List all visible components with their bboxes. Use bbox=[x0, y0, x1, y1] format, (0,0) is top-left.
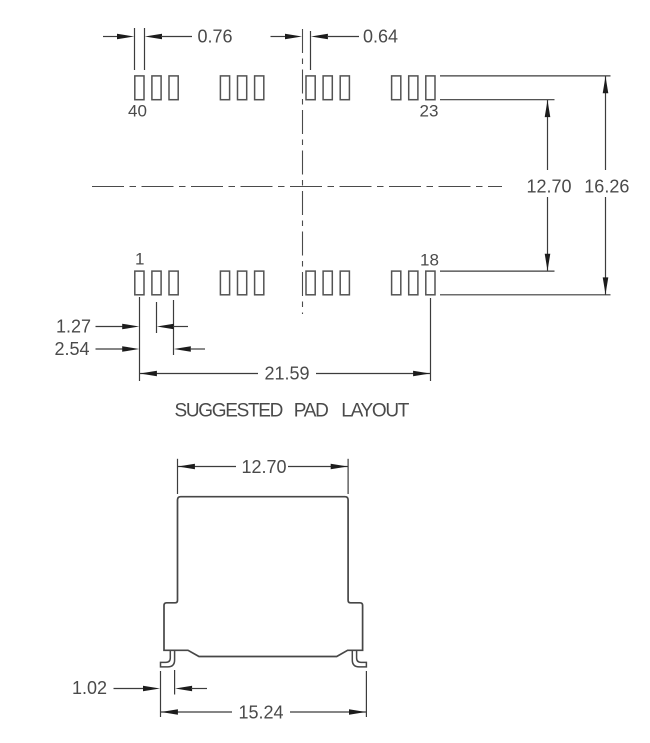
pad 7 bbox=[238, 271, 247, 295]
extension line 12.70 bottom bbox=[440, 270, 555, 272]
dimension 1.02 left tail bbox=[114, 688, 145, 690]
svg-text:40: 40 bbox=[128, 102, 147, 121]
dimension 15.24 right arrowhead bbox=[349, 709, 366, 715]
extension line 16.26 bottom bbox=[440, 294, 611, 296]
pad 8 bbox=[255, 271, 264, 295]
svg-text:0.64: 0.64 bbox=[363, 26, 398, 46]
pad 18 bbox=[426, 271, 435, 295]
dimension 1.02 right tail bbox=[191, 688, 207, 690]
dimension 21.59 line right bbox=[316, 373, 431, 375]
dimension 1.27 right arrowhead bbox=[157, 324, 174, 330]
extension line pad1 center bbox=[139, 297, 141, 381]
pad 17 bbox=[409, 271, 418, 295]
dimension 12.70 left arrowhead (side view) bbox=[178, 464, 195, 470]
svg-text:12.70: 12.70 bbox=[242, 457, 287, 477]
dimension 1.27 left tail bbox=[96, 326, 124, 328]
dimension 1.02 right arrowhead bbox=[175, 686, 192, 692]
dimension 16.26 up arrowhead bbox=[603, 76, 609, 93]
dimension 0.64 left arrow tail bbox=[271, 36, 287, 38]
pad 12 bbox=[323, 271, 332, 295]
dimension 16.26 vertical line upper bbox=[605, 76, 607, 170]
package body outline bbox=[164, 497, 363, 657]
dimension 0.76 right arrow tail bbox=[161, 36, 192, 38]
pad 34 bbox=[238, 76, 247, 100]
svg-text:12.70: 12.70 bbox=[527, 176, 572, 196]
extension line lead inner left bbox=[174, 670, 176, 695]
dimension 0.76 extension line left bbox=[134, 28, 136, 70]
package lead right bbox=[352, 650, 366, 667]
pad 3 bbox=[169, 271, 178, 295]
dimension 21.59 left arrowhead bbox=[140, 371, 157, 377]
pad 39 bbox=[152, 76, 161, 100]
dimension 2.54 right arrowhead bbox=[174, 346, 191, 352]
dimension 1.27 left arrowhead bbox=[122, 324, 139, 330]
pad 35 bbox=[220, 76, 229, 100]
pad 13 bbox=[340, 271, 349, 295]
dimension 2.54 right tail bbox=[190, 348, 205, 350]
dimension 12.70 up arrowhead bbox=[545, 100, 551, 117]
dimension 16.26 vertical line lower bbox=[605, 197, 607, 295]
pad 24 bbox=[409, 76, 418, 100]
svg-text:15.24: 15.24 bbox=[239, 702, 284, 722]
extension line 16.26 top bbox=[440, 75, 611, 77]
pad 2 bbox=[152, 271, 161, 295]
dimension 12.70 down arrowhead bbox=[545, 254, 551, 271]
svg-text:2.54: 2.54 bbox=[55, 339, 90, 359]
dimension 0.76 left arrow tail bbox=[103, 36, 118, 38]
dimension 0.64 right arrowhead bbox=[311, 34, 328, 40]
pad 1 (bottom row) bbox=[135, 271, 144, 295]
package lead left bbox=[161, 650, 175, 667]
dimension 0.64 extension line bbox=[310, 31, 312, 70]
vertical centerline bbox=[302, 29, 304, 314]
dimension 21.59 right arrowhead bbox=[413, 371, 430, 377]
svg-text:23: 23 bbox=[420, 102, 439, 121]
dimension 12.70 vertical line lower bbox=[547, 197, 549, 271]
pad 23 bbox=[426, 76, 435, 100]
svg-text:1: 1 bbox=[135, 250, 144, 269]
extension line lead tip left bbox=[160, 671, 162, 717]
dimension 1.02 left arrowhead bbox=[143, 686, 160, 692]
svg-text:21.59: 21.59 bbox=[265, 364, 310, 384]
dimension 15.24 line left bbox=[161, 711, 233, 713]
pad 38 bbox=[169, 76, 178, 100]
pad 25 bbox=[392, 76, 401, 100]
dimension 0.76 right arrowhead bbox=[145, 34, 162, 40]
svg-text:0.76: 0.76 bbox=[198, 26, 233, 46]
extension line pad3 center bbox=[173, 300, 175, 355]
svg-text:1.02: 1.02 bbox=[72, 678, 107, 698]
pad 28 bbox=[340, 76, 349, 100]
pad 33 bbox=[255, 76, 264, 100]
pad 6 bbox=[220, 271, 229, 295]
dimension 15.24 line right bbox=[290, 711, 366, 713]
dimension 12.70 extension line left (side view) bbox=[177, 459, 179, 494]
pad 16 bbox=[392, 271, 401, 295]
svg-text:1.27: 1.27 bbox=[56, 317, 91, 337]
pad 40 (top row) bbox=[135, 76, 144, 100]
extension line pad2 center bbox=[156, 302, 158, 333]
dimension 12.70 extension line right (side view) bbox=[347, 459, 349, 494]
dimension 2.54 left arrowhead bbox=[122, 346, 139, 352]
dimension 16.26 down arrowhead bbox=[603, 277, 609, 294]
dimension 15.24 left arrowhead bbox=[161, 709, 178, 715]
dimension 12.70 right arrowhead (side view) bbox=[331, 464, 348, 470]
dimension 12.70 vertical line upper bbox=[547, 100, 549, 170]
pad 11 bbox=[306, 271, 315, 295]
dimension 12.70 line left (side view) bbox=[178, 466, 237, 468]
dimension 1.27 right tail bbox=[173, 326, 188, 328]
extension line lead tip right bbox=[365, 671, 367, 717]
pad 30 bbox=[306, 76, 315, 100]
horizontal centerline bbox=[92, 186, 502, 188]
dimension 2.54 left tail bbox=[96, 348, 124, 350]
dimension 0.76 left arrowhead bbox=[117, 34, 134, 40]
dimension 12.70 line right (side view) bbox=[288, 466, 348, 468]
dimension 0.64 left arrowhead bbox=[285, 34, 302, 40]
svg-text:18: 18 bbox=[420, 251, 439, 270]
dimension 0.64 right arrow tail bbox=[327, 36, 359, 38]
extension line pad18 center bbox=[430, 298, 432, 381]
dimension 0.76 extension line right bbox=[144, 28, 146, 70]
pad 29 bbox=[323, 76, 332, 100]
extension line 12.70 top bbox=[440, 99, 555, 101]
svg-text:16.26: 16.26 bbox=[584, 176, 629, 196]
dimension 21.59 line left bbox=[140, 373, 259, 375]
